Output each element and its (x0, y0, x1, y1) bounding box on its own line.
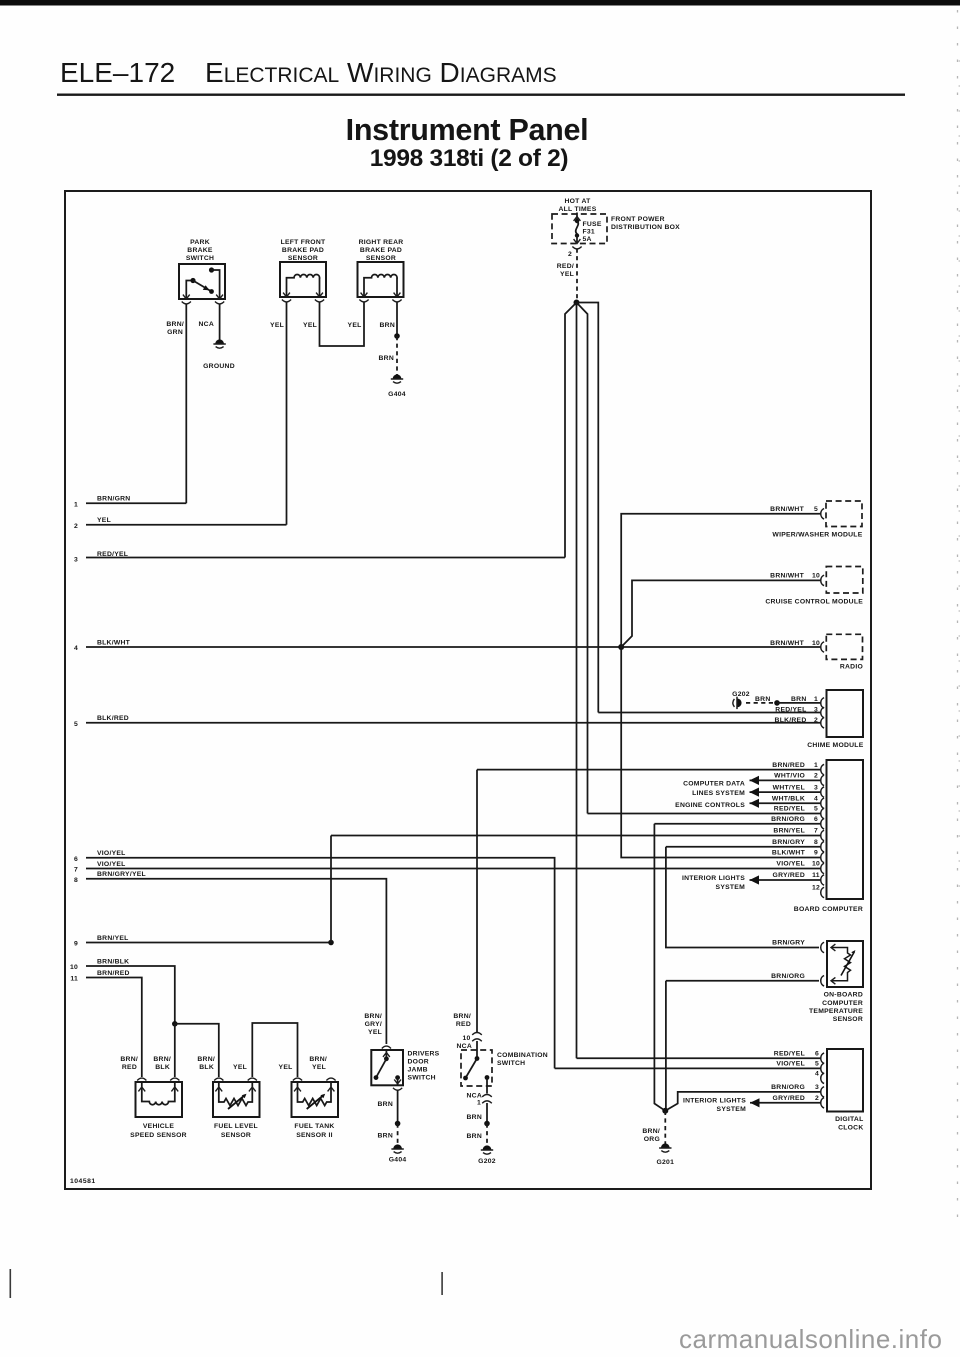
wire BRN dashed from G202 to splice (746, 702, 777, 704)
svg-text:BRAKE PAD: BRAKE PAD (282, 247, 324, 254)
label INTERIOR LIGHTS SYSTEM (682, 875, 745, 891)
label DRIVERS DOOR JAMB SWITCH (408, 1051, 440, 1082)
svg-text:BRN/ORG: BRN/ORG (771, 973, 805, 980)
wire junction down to board computer pin 9 (621, 647, 820, 858)
svg-text:VIO/YEL: VIO/YEL (97, 861, 126, 868)
svg-text:DIGITAL: DIGITAL (835, 1116, 863, 1123)
svg-text:6: 6 (74, 856, 78, 863)
label HOT AT ALL TIMES (559, 198, 597, 213)
svg-text:SWITCH: SWITCH (186, 255, 214, 262)
wire WHT/VIO stub pin 2 (750, 779, 821, 781)
svg-text:YEL: YEL (279, 1064, 293, 1071)
svg-text:5: 5 (74, 721, 78, 728)
svg-text:1998 318ti (2 of 2): 1998 318ti (2 of 2) (370, 145, 569, 172)
connector arc clock pin 4 (821, 1073, 824, 1083)
wiper/washer module (dashed) (826, 501, 862, 527)
svg-text:VIO/YEL: VIO/YEL (97, 850, 126, 857)
wire row 4 BLK/WHT to junction (86, 646, 621, 648)
connector arc board computer pin 10 (821, 863, 824, 873)
wire BRN/GRY pin 8 (666, 846, 821, 848)
svg-text:BRN: BRN (378, 1101, 393, 1108)
svg-text:CRUISE CONTROL MODULE: CRUISE CONTROL MODULE (765, 599, 863, 606)
connector arcs temp sensor (821, 942, 824, 952)
wire YEL bridge fuel level to fuel tank (252, 1023, 297, 1077)
wire BRN/GRY down to temp sensor (666, 847, 819, 948)
label BRN/ GRY/ YEL at door jamb switch (364, 1013, 382, 1036)
svg-text:TEMPERATURE: TEMPERATURE (809, 1008, 863, 1015)
label DIGITAL CLOCK (835, 1116, 863, 1132)
wire BRN combination to splice (486, 1103, 488, 1124)
wire row 8 BRN/GRY/YEL to door jamb switch (86, 879, 386, 1044)
svg-text:BOARD COMPUTER: BOARD COMPUTER (794, 906, 863, 913)
wire BRN/YEL pin 7 from fuel tank sender (331, 836, 821, 943)
svg-text:BRN/WHT: BRN/WHT (770, 573, 804, 580)
wire row 11 BRN/RED to speed sensor pin 1 (86, 978, 142, 1078)
wire power bus 2 (to digital clock 6) (576, 303, 578, 1059)
page fold mark left (10, 1269, 12, 1298)
svg-text:RED/: RED/ (557, 263, 574, 270)
svg-text:RIGHT REAR: RIGHT REAR (359, 239, 404, 246)
svg-text:BRN/YEL: BRN/YEL (773, 828, 805, 835)
label GRY/RED 11 (773, 872, 820, 879)
arrow to computer data lines system (750, 776, 760, 785)
diagram border frame (65, 191, 871, 1189)
svg-text:ALL TIMES: ALL TIMES (559, 206, 597, 213)
connector arc board computer pin 12 (821, 887, 824, 897)
connector 2 below fuse box (572, 247, 581, 249)
arrow to engine controls (750, 799, 760, 808)
arrow to interior lights system (750, 875, 760, 884)
front power distribution box (dashed) (552, 214, 607, 244)
label INTERIOR LIGHTS SYSTEM clock (683, 1097, 746, 1113)
svg-text:SENSOR II: SENSOR II (296, 1132, 333, 1139)
inductor inside speed sensor (142, 1082, 175, 1105)
fuse F31 5A (574, 213, 581, 244)
svg-text:BRN: BRN (378, 1133, 393, 1140)
svg-text:CHIME MODULE: CHIME MODULE (807, 742, 863, 749)
svg-text:BLK: BLK (155, 1064, 170, 1071)
wire BRN dashed to ground (396, 336, 398, 375)
svg-text:ELE–172: ELE–172 (60, 57, 175, 88)
svg-text:5: 5 (815, 1061, 819, 1068)
ground G202 sideways at chime (733, 697, 742, 709)
radio module (dashed) (826, 634, 862, 659)
wire row 10 BRN/BLK (86, 966, 175, 1024)
cruise control module (dashed) (826, 567, 863, 594)
svg-text:NCA: NCA (457, 1043, 472, 1050)
svg-text:RED: RED (456, 1021, 471, 1028)
svg-text:4: 4 (814, 796, 818, 803)
svg-text:SYSTEM: SYSTEM (716, 884, 746, 891)
label BRN/ YEL fuel tank pin2 (309, 1056, 327, 1071)
svg-text:COMPUTER DATA: COMPUTER DATA (683, 780, 745, 787)
svg-text:12: 12 (812, 885, 820, 892)
svg-text:G404: G404 (389, 1157, 407, 1164)
svg-text:BRN/: BRN/ (309, 1056, 327, 1063)
connector arc door jamb bottom (393, 1088, 402, 1090)
svg-text:4: 4 (815, 1071, 819, 1078)
svg-text:2: 2 (814, 773, 818, 780)
label VIO/YEL 5 clock (776, 1061, 819, 1068)
label BRN/ RED at combination switch (453, 1013, 471, 1028)
svg-text:WHT/VIO: WHT/VIO (774, 773, 805, 780)
svg-text:104581: 104581 (70, 1178, 96, 1185)
node power splice (574, 300, 580, 306)
svg-text:SPEED SENSOR: SPEED SENSOR (130, 1132, 187, 1139)
svg-text:ON-BOARD: ON-BOARD (824, 992, 863, 999)
svg-text:COMPUTER: COMPUTER (822, 1000, 863, 1007)
wire row 9 BRN/YEL to fuel tank sender branch (86, 942, 331, 944)
connector arc board computer pin 8 (821, 842, 824, 852)
svg-text:BRN/GRY: BRN/GRY (772, 839, 805, 846)
label WHT/YEL 3 (773, 784, 818, 791)
svg-text:BRN/GRY/YEL: BRN/GRY/YEL (97, 871, 146, 878)
node chime BRN splice (774, 700, 780, 706)
svg-text:SENSOR: SENSOR (288, 255, 318, 262)
svg-text:8: 8 (74, 877, 78, 884)
svg-text:BRN/WHT: BRN/WHT (770, 640, 804, 647)
svg-text:1: 1 (477, 1100, 481, 1107)
svg-text:JAMB: JAMB (408, 1067, 428, 1074)
svg-text:GRN: GRN (167, 329, 183, 336)
connector arc chime pin 3 (821, 707, 824, 717)
svg-text:carmanualsonline.info: carmanualsonline.info (679, 1324, 942, 1354)
arrow to interior lights system clock (750, 1098, 760, 1107)
connector arc board computer pin 1 (821, 764, 824, 774)
label BRN/ BLK speed sensor pin2 (153, 1056, 171, 1071)
svg-text:6: 6 (814, 816, 818, 823)
ground G404 lower (391, 1144, 403, 1153)
svg-text:BRN: BRN (467, 1133, 482, 1140)
svg-text:3: 3 (74, 557, 78, 564)
svg-text:BRN/: BRN/ (364, 1013, 382, 1020)
on-board computer temperature sensor box (827, 941, 863, 987)
wire BRN/BLK to speed sensor pin 2 (174, 1024, 176, 1077)
svg-text:INTERIOR LIGHTS: INTERIOR LIGHTS (683, 1097, 746, 1104)
svg-text:9: 9 (814, 850, 818, 857)
svg-text:4: 4 (74, 645, 78, 652)
fuel level sensor box (213, 1082, 260, 1117)
wire row 5 BLK/RED to chime pin 2 (86, 722, 821, 724)
svg-text:BRN: BRN (755, 696, 770, 703)
wire BRN to chime pin 1 (777, 702, 821, 704)
node row 9 junction (328, 940, 334, 946)
svg-text:BLK: BLK (199, 1064, 214, 1071)
svg-text:BRN: BRN (380, 322, 395, 329)
connector 10 NCA inline (472, 1033, 482, 1042)
wire junction to cruise control module (621, 580, 820, 647)
svg-text:YEL: YEL (270, 322, 284, 329)
left front brake pad sensor label (281, 239, 326, 262)
svg-text:BLK/WHT: BLK/WHT (772, 850, 806, 857)
label VIO/YEL 10 (776, 861, 820, 868)
svg-text:BRAKE: BRAKE (187, 247, 213, 254)
svg-text:BRN/: BRN/ (453, 1013, 471, 1020)
connector arc door jamb top (382, 1046, 391, 1048)
drivers door jamb switch box (371, 1050, 403, 1085)
svg-text:BRN/: BRN/ (166, 321, 184, 328)
label BLK/WHT 9 (772, 850, 818, 857)
header rule (57, 94, 905, 96)
svg-text:8: 8 (814, 839, 818, 846)
wire BRN/ORG pin 6 (654, 823, 820, 825)
svg-text:G202: G202 (732, 691, 750, 698)
label COMPUTER DATA LINES SYSTEM (683, 780, 745, 796)
svg-text:YEL: YEL (233, 1064, 247, 1071)
svg-text:DOOR: DOOR (408, 1059, 429, 1066)
svg-text:1: 1 (814, 762, 818, 769)
svg-text:SYSTEM: SYSTEM (717, 1106, 747, 1113)
wire row 3 RED/YEL (86, 557, 565, 559)
wire row 6 VIO/YEL to clock pin 5 (86, 858, 555, 1069)
svg-text:YEL: YEL (348, 322, 362, 329)
svg-text:HOT AT: HOT AT (564, 198, 591, 205)
svg-text:5: 5 (814, 806, 818, 813)
connector arc board computer pin 4 (821, 798, 824, 808)
svg-text:5: 5 (814, 506, 818, 513)
label BRN/ ORG at G201 (642, 1128, 660, 1143)
wire BRN/RED board computer pin 1 (477, 769, 821, 771)
svg-text:SENSOR: SENSOR (833, 1016, 863, 1023)
svg-text:6: 6 (815, 1050, 819, 1057)
left front brake pad sensor B1 (280, 262, 326, 302)
wire BRN dashed to G202 (486, 1124, 488, 1147)
svg-text:WHT/BLK: WHT/BLK (772, 796, 805, 803)
label FUEL TANK SENSOR II (294, 1123, 334, 1139)
switch inside combination switch (463, 1056, 489, 1093)
wire BRN/BLK branch to fuel level sensor pin 1 (175, 1024, 219, 1077)
wire into combination switch (476, 1041, 478, 1059)
svg-text:2: 2 (74, 523, 78, 530)
arrow to computer data lines system 2 (750, 788, 760, 797)
vehicle speed sensor box (136, 1082, 183, 1117)
connector arc clock pin 6 (821, 1053, 824, 1063)
wire power bus 4 (to chime module 3) (577, 303, 599, 713)
connector arc radio pin 10 (821, 642, 824, 652)
svg-text:10: 10 (70, 964, 78, 971)
svg-text:ENGINE CONTROLS: ENGINE CONTROLS (675, 802, 745, 809)
connector arc board computer pin 6 (821, 819, 824, 829)
wire RED/YEL bus4 to chime pin 3 (598, 712, 820, 714)
connector arc clock pin 5 (821, 1063, 824, 1073)
svg-text:BRN/ORG: BRN/ORG (771, 816, 805, 823)
label WHT/BLK 4 (772, 796, 818, 803)
svg-text:2: 2 (814, 717, 818, 724)
svg-text:3: 3 (815, 1084, 819, 1091)
node door jamb BRN splice (395, 1121, 401, 1127)
label RED/YEL at fuse output (557, 263, 574, 278)
node BLK/WHT junction (618, 644, 624, 650)
wire VIO/YEL row6 to clock pin 5 (555, 1067, 821, 1069)
svg-text:10: 10 (812, 861, 820, 868)
svg-text:FUEL LEVEL: FUEL LEVEL (214, 1123, 258, 1130)
svg-text:WIPER/WASHER MODULE: WIPER/WASHER MODULE (772, 532, 862, 539)
svg-text:2: 2 (568, 251, 572, 258)
svg-text:YEL: YEL (560, 271, 574, 278)
wire BRN/ORG down to G201 (654, 824, 665, 1111)
svg-text:7: 7 (814, 828, 818, 835)
svg-text:YEL: YEL (97, 517, 111, 524)
svg-text:G404: G404 (388, 391, 406, 398)
wire dashed to G201 (664, 1111, 666, 1144)
svg-text:DRIVERS: DRIVERS (408, 1051, 440, 1058)
svg-text:BRN/: BRN/ (642, 1128, 660, 1135)
svg-text:ELECTRICAL WIRING DIAGRAMS: ELECTRICAL WIRING DIAGRAMS (205, 57, 557, 88)
svg-text:NCA: NCA (467, 1093, 482, 1100)
thermistor inside temp sensor (831, 944, 856, 984)
label BRN/GRN (166, 321, 184, 336)
svg-text:VIO/YEL: VIO/YEL (776, 1061, 805, 1068)
ground G201 (659, 1143, 671, 1152)
resistor inside fuel level sensor (214, 1078, 257, 1109)
svg-text:G202: G202 (478, 1158, 496, 1165)
label BRN/WHT 10 (770, 573, 820, 580)
label BRN 1 (791, 696, 818, 703)
svg-text:CLOCK: CLOCK (838, 1125, 863, 1132)
svg-text:G201: G201 (656, 1159, 674, 1166)
svg-text:GROUND: GROUND (203, 363, 235, 370)
svg-text:LINES SYSTEM: LINES SYSTEM (692, 790, 745, 797)
svg-text:1: 1 (814, 696, 818, 703)
svg-text:VIO/YEL: VIO/YEL (776, 861, 805, 868)
svg-text:DISTRIBUTION BOX: DISTRIBUTION BOX (611, 224, 680, 231)
connector arc chime pin 2 (821, 718, 824, 728)
label BRN/ORG 3 clock (771, 1084, 819, 1091)
resistor inside fuel tank sensor (293, 1078, 336, 1109)
ground G404 top (391, 374, 403, 383)
label BRN/ORG 6 (771, 816, 818, 823)
svg-text:COMBINATION: COMBINATION (497, 1052, 548, 1059)
svg-text:GRY/RED: GRY/RED (773, 1095, 805, 1102)
svg-text:SENSOR: SENSOR (221, 1132, 251, 1139)
svg-text:BRN: BRN (791, 696, 806, 703)
svg-text:NCA: NCA (199, 321, 214, 328)
label FUSE F31 5A (583, 221, 602, 243)
wire BRN door jamb to splice (397, 1090, 399, 1124)
connector arc board computer pin 5 (821, 808, 824, 818)
ground G202 lower (481, 1145, 493, 1154)
connector arc clock pin 3 (821, 1087, 824, 1097)
label VEHICLE SPEED SENSOR (130, 1123, 187, 1139)
svg-text:BRN: BRN (379, 355, 394, 362)
label ON-BOARD COMPUTER TEMPERATURE SENSOR (809, 992, 863, 1023)
svg-text:F31: F31 (583, 229, 595, 236)
svg-text:GRY/RED: GRY/RED (773, 872, 805, 879)
page fold mark centre (441, 1272, 443, 1295)
svg-text:BRN/GRY: BRN/GRY (772, 940, 805, 947)
svg-text:BRN/ORG: BRN/ORG (771, 1084, 805, 1091)
wire GRY/RED stub clock pin 2 (750, 1102, 821, 1104)
svg-text:BRN/BLK: BRN/BLK (97, 958, 129, 965)
svg-text:10: 10 (812, 640, 820, 647)
label RED/YEL 5 (774, 806, 818, 813)
svg-text:7: 7 (74, 867, 78, 874)
svg-text:BRN/GRN: BRN/GRN (97, 496, 130, 503)
svg-text:FUEL TANK: FUEL TANK (294, 1123, 334, 1130)
node G201 splice (662, 1108, 668, 1114)
svg-text:RED/YEL: RED/YEL (774, 1050, 805, 1057)
wire YEL bridge left-front pin2 to right-rear pin1 (320, 302, 365, 346)
svg-text:BLK/RED: BLK/RED (775, 717, 807, 724)
combination switch box (dashed) (461, 1050, 492, 1086)
label FUEL LEVEL SENSOR (214, 1123, 258, 1139)
wire RED/YEL dashed from fuse to splice (576, 249, 578, 300)
wire BRN/GRN park switch to row 1 (185, 304, 187, 503)
svg-text:YEL: YEL (368, 1029, 382, 1036)
svg-text:PARK: PARK (190, 239, 210, 246)
label BRN/YEL 7 (773, 828, 818, 835)
label BLK/RED 2 chime (775, 717, 818, 724)
label BRN/ RED speed sensor pin1 (120, 1056, 138, 1071)
svg-text:BRN/: BRN/ (153, 1056, 171, 1063)
label BRN/RED 1 (772, 762, 818, 769)
label BRN/GRY 8 (772, 839, 818, 846)
connector arc cruise pin 10 (821, 575, 824, 585)
svg-text:3: 3 (814, 784, 818, 791)
node splice on BRN (394, 333, 400, 339)
svg-text:BRN/: BRN/ (120, 1056, 138, 1063)
park brake switch label (186, 239, 214, 262)
svg-text:RED: RED (122, 1064, 137, 1071)
svg-text:2: 2 (815, 1095, 819, 1102)
page top scan bar (0, 0, 960, 6)
label BRN/WHT 5 (770, 506, 818, 513)
svg-text:SENSOR: SENSOR (366, 255, 396, 262)
label RED/YEL 3 chime (775, 707, 818, 714)
label BRN/ BLK fuel level pin1 (197, 1056, 215, 1071)
svg-text:BRN/: BRN/ (197, 1056, 215, 1063)
svg-text:Instrument Panel: Instrument Panel (346, 113, 589, 147)
svg-text:RADIO: RADIO (840, 664, 863, 671)
connector NCA 1 inline (482, 1095, 492, 1104)
wire RED/YEL bus3 to pin 5 (588, 813, 821, 815)
label RED/YEL 6 clock (774, 1050, 819, 1057)
wire RED/YEL bus2 to clock pin 6 (577, 1057, 821, 1059)
svg-text:YEL: YEL (303, 322, 317, 329)
svg-text:1: 1 (74, 502, 78, 509)
node row 10 split (172, 1021, 178, 1027)
wire BRN/RED down to combination switch (476, 770, 478, 1032)
label GRY/RED 2 clock (773, 1095, 819, 1102)
svg-text:SWITCH: SWITCH (497, 1060, 525, 1067)
wire BRN right-rear pin2 to splice (396, 302, 398, 336)
svg-text:GRY/: GRY/ (365, 1021, 382, 1028)
wire row 2 YEL (86, 524, 287, 526)
park brake switch S1 (179, 264, 225, 304)
chime module box (827, 690, 864, 737)
right rear brake pad sensor B2 (358, 262, 404, 302)
connector arc board computer pin 7 (821, 830, 824, 840)
connector arc board computer pin 11 (821, 875, 824, 885)
wire junction up to wiper module (621, 514, 820, 647)
fuel tank sensor II box (292, 1082, 339, 1117)
svg-text:9: 9 (74, 941, 78, 948)
wire BRN/ORG clock pin 3 to G201 (665, 1092, 820, 1111)
wire BRN/ORG temp sensor to G201 drop (666, 981, 819, 1111)
digital clock box (827, 1049, 863, 1112)
svg-text:BLK/RED: BLK/RED (97, 715, 129, 722)
switch inside door jamb (374, 1050, 401, 1085)
wire WHT/BLK stub pin 4 (750, 802, 821, 804)
wire row 7 VIO/YEL to board computer pin 10 (86, 868, 821, 870)
wire row 1 BRN/GRN (86, 502, 186, 504)
connector arc wiper pin 5 (821, 509, 824, 519)
board computer box (827, 760, 864, 899)
svg-text:FUSE: FUSE (583, 221, 602, 228)
right rear brake pad sensor label (359, 239, 404, 262)
svg-text:FRONT POWER: FRONT POWER (611, 216, 665, 223)
svg-text:10: 10 (812, 573, 820, 580)
